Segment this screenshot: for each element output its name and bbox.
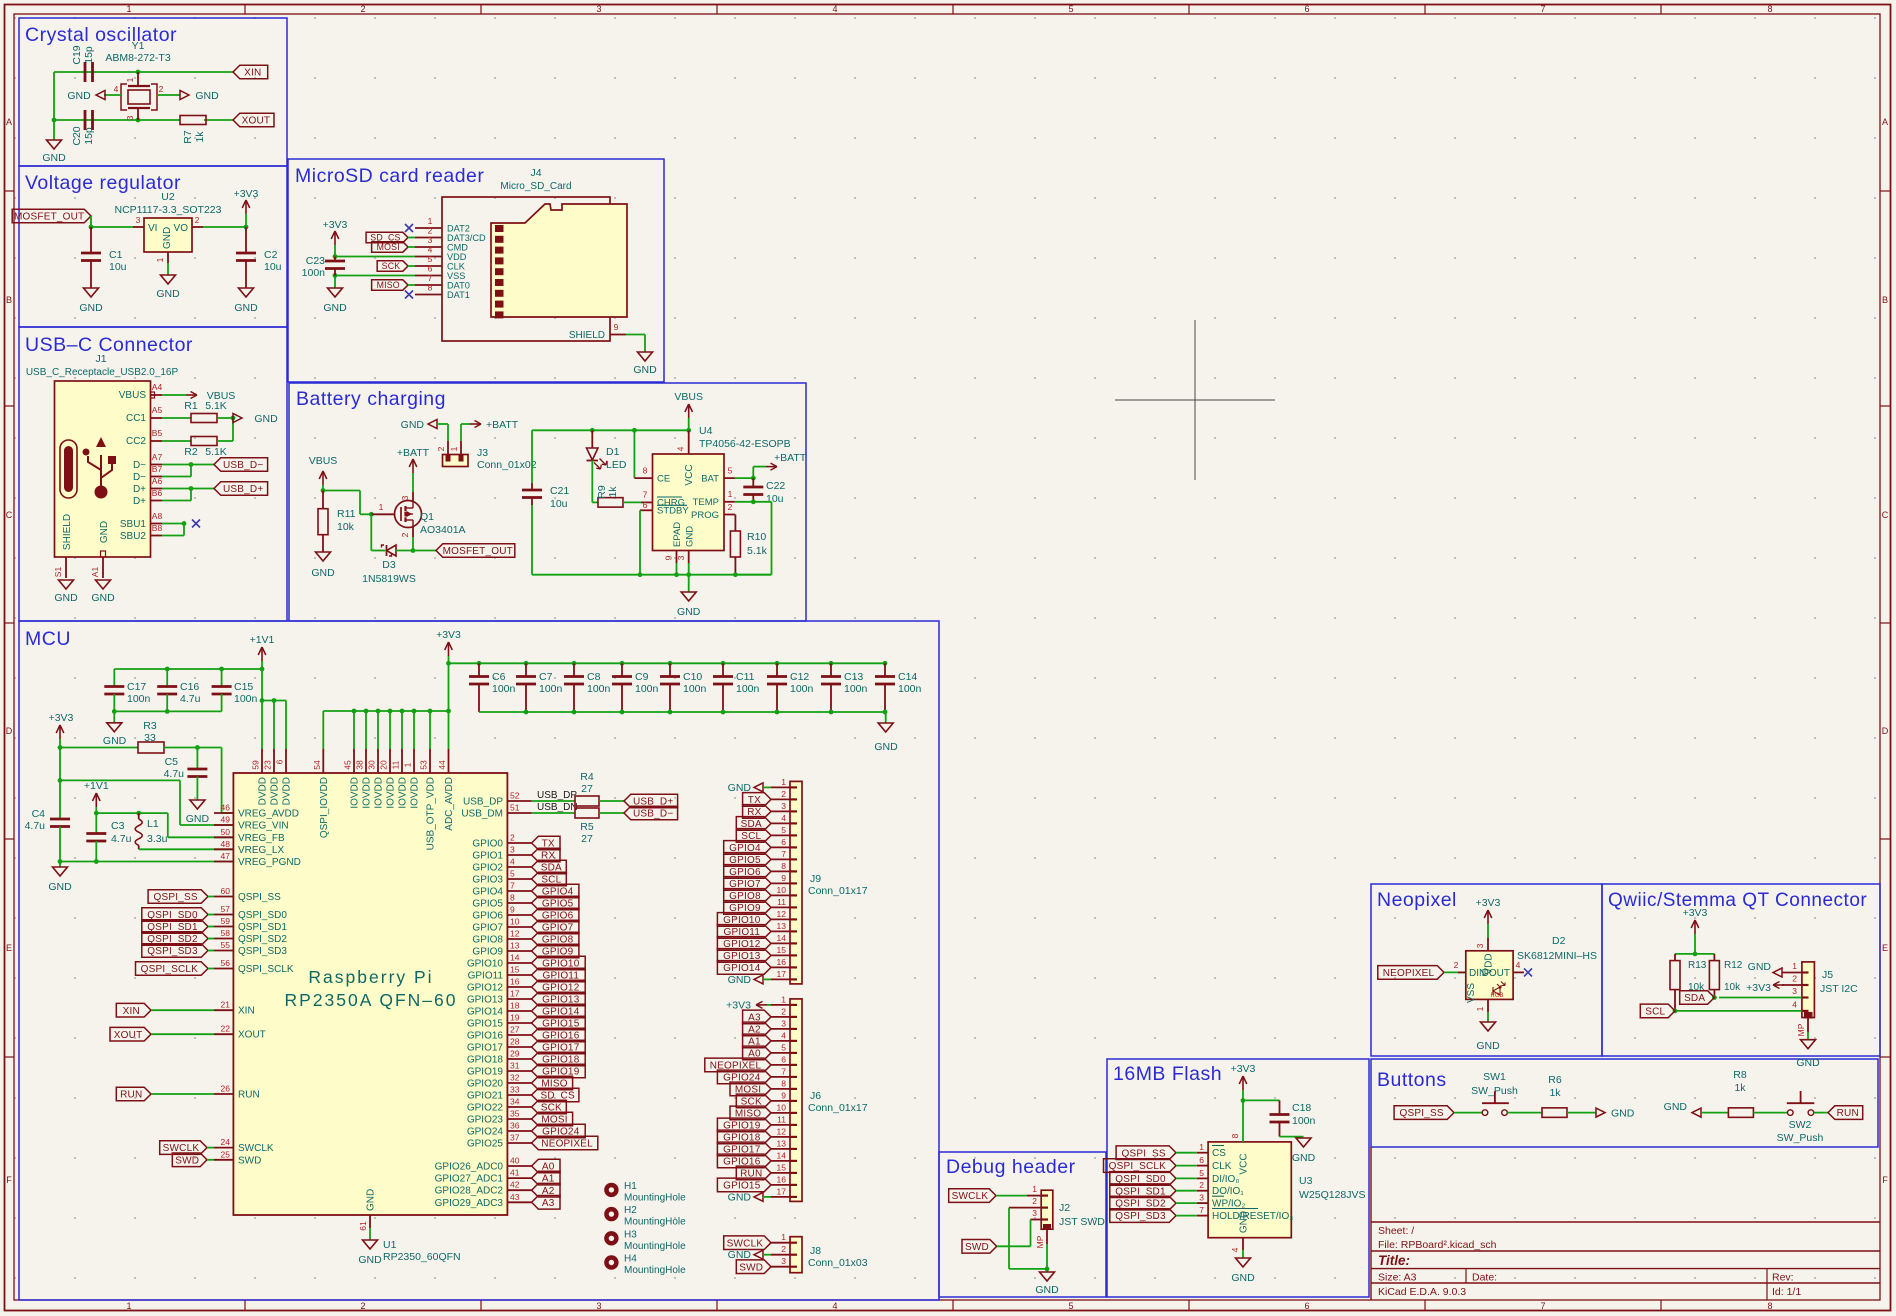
svg-text:GND: GND [728,1191,752,1203]
capacitor C18 100n [1270,1113,1290,1116]
junction at VCC [686,428,691,433]
pin 12 GPIO8 [507,938,531,940]
svg-text:USB_D−: USB_D− [223,460,263,471]
global label SWCLK debug [949,1189,996,1203]
section box 16MB Flash [1107,1059,1369,1297]
power +1V1 feeding DVDD pins [261,669,263,749]
svg-text:58: 58 [221,928,231,938]
wire TEMP loop to ground rail [735,501,753,503]
svg-text:NEOPIXEL: NEOPIXEL [541,1139,593,1150]
svg-text:GND: GND [1664,1101,1688,1113]
svg-text:10u: 10u [109,261,127,273]
svg-text:J6: J6 [810,1090,821,1102]
svg-text:GPIO26_ADC0: GPIO26_ADC0 [435,1162,504,1173]
svg-text:R3: R3 [143,720,157,732]
wire SWCLK to J2 pin 1 [996,1195,1027,1197]
global label GPIO11 [532,968,586,982]
svg-text:5: 5 [728,466,733,476]
ground at C18 [1296,1138,1311,1147]
global label GPIO19 [532,1064,586,1078]
wires D+ pair to label [162,488,191,490]
svg-text:Rev:: Rev: [1772,1272,1794,1284]
svg-text:Title:: Title: [1378,1253,1410,1268]
pin 7 of J9 [771,858,790,860]
capacitor C10 100n [668,661,673,666]
svg-text:8: 8 [781,1078,786,1088]
svg-text:GPIO13: GPIO13 [467,995,504,1006]
global label GPIO5 [532,896,579,910]
svg-text:7: 7 [643,490,648,500]
resistor R3 33 [60,747,138,749]
pin 6 DVDD [285,749,287,773]
global label SCK [377,261,408,271]
pin 3 of J6 [771,1028,790,1030]
svg-text:Conn_01x17: Conn_01x17 [808,885,868,897]
wire XOUT net bottom [54,119,180,121]
title block outline [1370,1147,1372,1300]
wire L1 to VREG_LX pin 48 [139,848,234,850]
global label XIN to MCU [116,1003,151,1017]
svg-text:AO3401A: AO3401A [420,524,466,536]
pin 17 of J6 [771,1196,790,1198]
capacitor C8 100n [572,661,577,666]
svg-text:9: 9 [781,873,786,883]
global label GPIO10 at J9 [717,913,771,927]
svg-text:VCC: VCC [1239,1153,1250,1174]
wire SW1 to R6 [1507,1112,1542,1114]
pin 2 of J6 [771,1016,790,1018]
global label SD_CS [532,1088,579,1102]
ground at decoupling rail [885,712,887,723]
global label GPIO18 at J6 [717,1130,771,1144]
svg-text:GND: GND [633,364,657,376]
svg-text:+BATT: +BATT [774,452,807,464]
svg-text:Y1: Y1 [132,40,145,52]
svg-text:VBUS: VBUS [674,391,703,403]
svg-text:QSPI_SD0: QSPI_SD0 [238,910,287,921]
svg-text:MountingHole: MountingHole [624,1265,686,1276]
svg-text:12: 12 [510,929,520,939]
pin 13 GPIO9 [507,950,531,952]
svg-text:1k: 1k [1549,1087,1561,1099]
pin 2 DAT3/CD of J4 [415,237,442,239]
svg-text:QSPI_SCLK: QSPI_SCLK [238,964,294,975]
svg-text:STDBY: STDBY [657,506,689,517]
svg-text:SW2: SW2 [1789,1119,1812,1131]
svg-text:+3V3: +3V3 [234,188,259,200]
svg-text:MOSFET_OUT: MOSFET_OUT [14,212,84,223]
pin 44 ADC_AVDD [448,711,450,749]
svg-text:1: 1 [379,502,384,512]
junction at C1 top [89,225,94,230]
pin 2 of Q1 to output node [412,527,414,537]
svg-text:3: 3 [510,845,515,855]
svg-text:8: 8 [428,283,433,293]
svg-text:QSPI_SD1: QSPI_SD1 [238,922,287,933]
global label SDA [532,860,567,874]
svg-text:3: 3 [781,1018,786,1028]
svg-text:MOSI: MOSI [377,242,400,252]
svg-text:1k: 1k [194,131,206,143]
svg-text:MicroSD card reader: MicroSD card reader [295,165,484,187]
pin 52 USB_DP [507,800,531,802]
pin 1 of J9 [771,786,790,788]
svg-text:GPIO29_ADC3: GPIO29_ADC3 [435,1198,504,1209]
svg-text:R6: R6 [1548,1074,1562,1086]
pin 25 SWD [214,1159,233,1161]
svg-text:5.1K: 5.1K [205,446,227,458]
pin 8 DAT1 of J4 [415,294,442,296]
capacitor C21 10u [531,430,533,483]
global label A0 [532,1159,560,1173]
svg-text:NEOPIXEL: NEOPIXEL [1383,968,1435,979]
pin 45 IOVDD [353,711,355,749]
svg-text:MISO: MISO [377,280,400,290]
svg-text:DVDD: DVDD [270,777,281,805]
svg-text:100n: 100n [539,683,563,695]
svg-text:9: 9 [510,905,515,915]
wire BAT to +BATT and C22 [735,477,753,479]
svg-text:CLK: CLK [1212,1161,1232,1172]
wire joining R1 R2 to GND arrow [217,417,233,419]
svg-text:GPIO10: GPIO10 [467,959,504,970]
wire +3V3 rail qwiic [1675,953,1714,955]
connector J3 Conn_01x02 [447,424,449,441]
svg-text:21: 21 [221,1000,231,1010]
svg-text:R7: R7 [182,130,194,144]
svg-text:R11: R11 [337,508,356,520]
svg-text:GPIO19: GPIO19 [467,1067,504,1078]
svg-text:7: 7 [1540,4,1545,14]
pin 22 XOUT [214,1033,233,1035]
ground rail of battery section [532,574,772,576]
svg-text:55: 55 [221,940,231,950]
pin 34 GPIO22 [507,1106,531,1108]
ground below U1 [369,1228,371,1240]
pin 1 of J8 [771,1242,790,1244]
ground below D2 [1481,1022,1496,1031]
svg-text:1k: 1k [607,486,619,498]
pin 4 GPIO2 [507,866,531,868]
resistor R10 5.1k [734,514,737,516]
wire VSS to ground rail [335,275,415,277]
svg-text:100n: 100n [635,683,659,695]
pin 9 EPAD of U4 [676,551,678,564]
global label GPIO24 at J6 [717,1070,771,1084]
svg-text:IOVDD: IOVDD [410,777,421,809]
global label MISO at J6 [730,1106,771,1120]
pin 59 QSPI_SD1 [214,926,233,928]
svg-text:1k: 1k [1734,1082,1746,1094]
svg-text:PROG: PROG [691,510,719,521]
pin 2 PROG of U4 [724,514,735,516]
svg-text:1: 1 [781,994,786,1004]
global label SWCLK at J8 [724,1236,771,1250]
global label GPIO9 at J9 [724,901,771,915]
pin 10 of J9 [771,894,790,896]
svg-text:1: 1 [428,216,433,226]
svg-text:QSPI_SS: QSPI_SS [1400,1108,1444,1119]
global label TX [532,836,560,850]
svg-text:DAT2: DAT2 [447,224,470,234]
power VBUS above U4 [688,418,690,430]
svg-text:VREG_PGND: VREG_PGND [238,857,301,868]
svg-text:25: 25 [221,1149,231,1159]
svg-text:30: 30 [367,760,377,770]
svg-text:C4: C4 [32,808,46,820]
svg-text:GPIO21: GPIO21 [467,1091,504,1102]
svg-text:42: 42 [510,1180,520,1190]
svg-text:D+: D+ [133,484,146,495]
pin 5 BAT of U4 [724,477,735,479]
global label GPIO4 at J9 [724,841,771,855]
wire +3V3 to VREG_VIN pin 49 [60,779,180,781]
svg-text:MountingHole: MountingHole [624,1241,686,1252]
svg-text:7: 7 [1540,1301,1545,1311]
svg-text:3: 3 [596,4,601,14]
svg-text:5: 5 [1068,4,1073,14]
svg-text:7: 7 [1199,1205,1204,1215]
svg-text:13: 13 [510,941,520,951]
resistor R2 5.1K [162,440,191,442]
svg-text:4: 4 [676,446,686,451]
wire IOVDD feed row [323,710,448,712]
ground below J2 [1046,1269,1048,1272]
svg-text:C16: C16 [180,681,199,693]
svg-text:13: 13 [777,1138,787,1148]
ground below C4 [59,862,61,868]
resistor R4 27 [532,800,575,802]
svg-text:6: 6 [1199,1155,1204,1165]
svg-text:5.1K: 5.1K [205,400,227,412]
svg-text:10: 10 [777,885,787,895]
global label NEOPIXEL [532,1136,598,1150]
global label GPIO9 [532,944,579,958]
svg-text:TP4056-42-ESOPB: TP4056-42-ESOPB [699,438,791,450]
svg-text:5: 5 [1199,1168,1204,1178]
svg-text:GND: GND [1611,1108,1635,1120]
svg-text:2: 2 [1454,960,1459,970]
svg-text:100n: 100n [302,267,326,279]
ground below U3 [1236,1258,1251,1267]
global label XOUT [233,113,274,127]
pin 9 of J6 [771,1100,790,1102]
pin 3 GPIO1 [507,854,531,856]
resistor R6 1k [1542,1108,1567,1118]
ground below A1 pin [96,580,111,589]
wire from label to node [90,216,92,227]
svg-text:Micro_SD_Card: Micro_SD_Card [500,181,571,192]
pin 16 GPIO12 [507,986,531,988]
capacitor C7 100n [524,661,529,666]
frame column ticks and numbers [244,5,246,15]
section box MCU [19,621,939,1300]
svg-text:100n: 100n [736,683,760,695]
svg-text:RGB: RGB [1490,993,1503,999]
svg-text:Conn_01x17: Conn_01x17 [808,1102,868,1114]
svg-text:SCK: SCK [382,261,401,271]
pin 3 SDA of J5 [1719,997,1802,999]
wire to C18 [1243,1099,1280,1101]
svg-text:GND: GND [366,1189,377,1211]
svg-text:D1: D1 [606,446,620,458]
svg-text:BAT: BAT [701,474,719,485]
pin 41 GPIO27_ADC1 [507,1177,531,1179]
pin 50 VREG_FB [214,836,233,838]
svg-text:GPIO23: GPIO23 [467,1115,504,1126]
svg-text:HOLD/RESET/IO₃: HOLD/RESET/IO₃ [1212,1211,1293,1222]
pin 29 GPIO18 [507,1058,531,1060]
global label USB_D+ right [624,794,678,808]
svg-text:R12: R12 [1724,960,1743,971]
svg-text:4.7u: 4.7u [180,693,201,705]
pin 58 QSPI_SD2 [214,938,233,940]
svg-text:GND: GND [156,288,180,300]
capacitor C17 [113,669,115,687]
svg-text:GPIO2: GPIO2 [472,863,503,874]
no-connect X at SBU1 [192,520,200,528]
svg-text:100n: 100n [790,683,814,695]
mounting hole H1 [604,1183,618,1197]
svg-text:48: 48 [221,839,231,849]
pin 5 of J9 [771,834,790,836]
power GND arrow left of Y1 [104,94,121,96]
pin 16 of J9 [771,966,790,968]
pin 3 of Q1 to +BATT [412,492,414,501]
svg-text:B7: B7 [152,464,163,474]
svg-text:J3: J3 [477,447,488,459]
svg-text:1: 1 [1199,1142,1204,1152]
wire R4 to USB_D+ [599,800,624,802]
svg-text:2: 2 [1032,1196,1037,1206]
svg-text:B: B [1882,295,1888,305]
svg-text:SBU1: SBU1 [120,519,147,530]
svg-text:49: 49 [221,815,231,825]
svg-text:6: 6 [1304,4,1309,14]
ground below U2 [167,263,169,275]
pin 24 SWCLK [214,1147,233,1149]
svg-text:C18: C18 [1292,1102,1311,1114]
svg-text:3: 3 [1792,986,1797,996]
svg-text:GPIO11: GPIO11 [468,971,504,982]
svg-text:59: 59 [221,916,231,926]
capacitor C22 10u [752,478,754,488]
no-connect X at DOUT [1524,968,1532,976]
wire SWD to J2 pin 3 [997,1245,1031,1247]
capacitor C6 100n [477,661,482,666]
global label GPIO11 at J9 [717,925,771,939]
svg-text:R10: R10 [747,531,766,543]
svg-text:RP2350_60QFN: RP2350_60QFN [383,1251,461,1263]
svg-text:100n: 100n [844,683,868,695]
capacitor C23 [334,257,336,262]
power VBUS arrow at J1 [162,394,186,396]
svg-text:31: 31 [510,1061,520,1071]
svg-text:5: 5 [510,869,515,879]
pin 10 of J6 [771,1112,790,1114]
resistor R8 1k [1728,1108,1753,1118]
wire XIN net top [54,71,233,73]
svg-text:2: 2 [159,84,164,94]
svg-text:Debug header: Debug header [946,1156,1076,1178]
global label QSPI_SS button [1394,1106,1454,1120]
junction at D1 branch [590,428,595,433]
global label GPIO6 at J9 [724,865,771,879]
pin 53 USB_OTP_VDD [429,711,431,749]
junction node at crystal pin1 [136,70,141,75]
svg-text:2: 2 [400,532,410,537]
svg-text:F: F [6,1175,12,1185]
pin 47 VREG_PGND [214,861,233,863]
svg-text:5: 5 [781,1042,786,1052]
svg-text:14: 14 [777,933,787,943]
svg-text:2: 2 [1792,974,1797,984]
capacitor C20 [84,110,87,130]
svg-text:1: 1 [126,4,131,14]
global label SWD debug [962,1240,997,1254]
pin 1 IOVDD [413,711,415,749]
pin 7 DAT0 of J4 [415,284,442,286]
svg-text:SDA: SDA [1684,993,1705,1004]
wire +1V1 rail [114,668,262,670]
global label SWD [172,1153,207,1167]
svg-text:MP: MP [1796,1023,1806,1036]
global label GPIO13 at J9 [717,949,771,963]
pin 38 IOVDD [365,711,367,749]
svg-text:H1: H1 [624,1181,637,1192]
svg-text:19: 19 [510,1013,520,1023]
svg-text:100n: 100n [492,683,516,695]
global label MOSI [372,242,408,252]
wire gate branch down to diode [370,514,372,550]
pin 5 QSPI_SD0 of U3 [1197,1177,1208,1179]
pin 31 GPIO19 [507,1070,531,1072]
pin 2 of J2 [1009,1207,1041,1209]
svg-text:QSPI_SD2: QSPI_SD2 [238,934,287,945]
svg-text:Q1: Q1 [420,511,434,523]
pin 13 of J9 [771,930,790,932]
svg-text:S1: S1 [53,567,63,578]
svg-text:D3: D3 [382,559,396,571]
pin 20 IOVDD [389,711,391,749]
connector J6 Conn_01x17 [790,999,802,1202]
wires SBU pair with no-connect [162,523,184,525]
svg-text:37: 37 [510,1133,520,1143]
pin 12 of J9 [771,918,790,920]
global label RUN at J6 [736,1166,771,1180]
junction VBUS node [321,488,326,493]
svg-text:J8: J8 [810,1245,821,1257]
pin 8 CE of U4 [633,430,635,478]
svg-text:3: 3 [1475,943,1485,948]
svg-text:3: 3 [125,115,135,120]
svg-text:A5: A5 [152,405,163,415]
svg-text:C: C [1882,510,1889,520]
svg-text:1N5819WS: 1N5819WS [362,573,416,585]
svg-text:23: 23 [263,760,273,770]
svg-text:F: F [1882,1175,1888,1185]
svg-text:5: 5 [1068,1301,1073,1311]
svg-text:57: 57 [221,904,231,914]
frame row ticks and letters [5,190,15,192]
pin 3 of J2 [1031,1219,1042,1221]
svg-text:GND: GND [103,735,127,747]
svg-text:GPIO25: GPIO25 [467,1139,504,1150]
svg-text:C6: C6 [492,671,506,683]
inductor L1 3.3u [138,813,140,819]
global label QSPI_SD3 at U3 [1110,1209,1176,1223]
global label SCK at J6 [736,1094,771,1108]
